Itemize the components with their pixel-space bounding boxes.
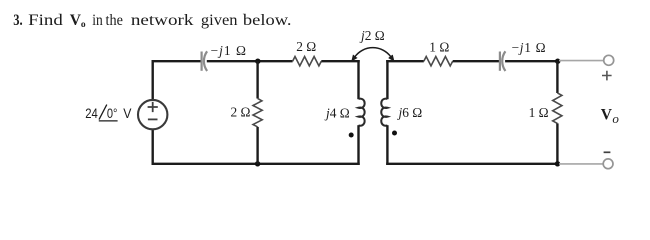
wire right coil corner to resistor R3 (386, 60, 424, 62)
svg-text:j4 Ω: j4 Ω (324, 106, 350, 121)
svg-text:j6 Ω: j6 Ω (397, 105, 423, 120)
svg-text:−j1 Ω: −j1 Ω (512, 40, 547, 55)
node junction dot bottom-left (255, 161, 260, 166)
svg-text:V: V (123, 105, 132, 121)
wire top-left horizontal (source top to capacitor) (152, 60, 201, 62)
terminal bottom (open circle) (603, 159, 613, 169)
svg-text:3.FindVointhenetworkgivenbelow: 3.FindVointhenetworkgivenbelow. (13, 12, 291, 30)
terminal top (open circle) (604, 55, 614, 65)
svg-text:0°: 0° (107, 105, 118, 121)
wire capacitor C2 to right node (505, 60, 559, 62)
mutual inductance arrow j2 (355, 48, 391, 57)
wire right coil bottom vertical (386, 125, 388, 165)
svg-text:1 Ω: 1 Ω (529, 105, 549, 120)
node junction dot top-right (555, 59, 560, 64)
svg-text:24: 24 (85, 105, 98, 121)
wire bottom-left horizontal (152, 163, 360, 165)
voltage source minus sign (148, 118, 158, 120)
wire left coil top vertical (357, 60, 359, 99)
resistor R3 1ohm top (zigzag) (424, 57, 453, 66)
svg-text:j2 Ω: j2 Ω (359, 28, 385, 43)
wire resistor R1 to left coil top corner (321, 60, 359, 62)
resistor R4 1ohm vertical (zigzag) (553, 93, 562, 124)
wire capacitor to resistor R1 (207, 60, 293, 62)
svg-text:o: o (612, 111, 619, 126)
capacitor C2 curved plate (502, 51, 505, 71)
svg-text:2 Ω: 2 Ω (296, 39, 316, 54)
svg-text:2 Ω: 2 Ω (231, 104, 251, 119)
capacitor C1 -j1ohm top-left : flat plate (201, 52, 203, 71)
wire resistor R3 to capacitor C2 (453, 60, 500, 62)
wire gray to top terminal (559, 60, 604, 62)
svg-text:V: V (601, 107, 613, 124)
plus sign output (602, 71, 612, 81)
node junction dot bottom-right (555, 161, 560, 166)
wire right coil top vertical (386, 60, 388, 99)
inductor L1 j4ohm coil (359, 99, 365, 126)
capacitor C1 curved plate (204, 51, 207, 71)
minus sign output (604, 151, 611, 153)
dot polarity right coil (392, 131, 397, 136)
wire left vertical upper (top corner to source) (151, 60, 153, 100)
capacitor C2 -j1ohm top-right : flat plate (499, 52, 501, 71)
dot polarity left coil (349, 133, 354, 138)
wire right branch upper (556, 61, 558, 93)
label 24 angle 0 V (85, 105, 132, 121)
resistor R1 2ohm top (zigzag) (293, 57, 322, 66)
svg-text:1 Ω: 1 Ω (429, 39, 449, 54)
voltage source circle (138, 100, 167, 129)
resistor R2 2ohm vertical (zigzag) (253, 98, 262, 127)
wire bottom-right horizontal (386, 163, 558, 165)
wire 2ohm branch upper (256, 61, 258, 98)
svg-text:−j1 Ω: −j1 Ω (211, 43, 248, 58)
wire gray to bottom terminal (559, 163, 603, 165)
voltage source plus sign (148, 102, 158, 112)
inductor L2 j6ohm coil (381, 99, 387, 126)
wire 2ohm branch lower (256, 127, 258, 164)
wire left coil bottom vertical (357, 125, 359, 165)
wire right branch lower (556, 123, 558, 163)
node junction dot top-left (255, 59, 260, 64)
wire left vertical lower (source to bottom corner) (151, 129, 153, 165)
